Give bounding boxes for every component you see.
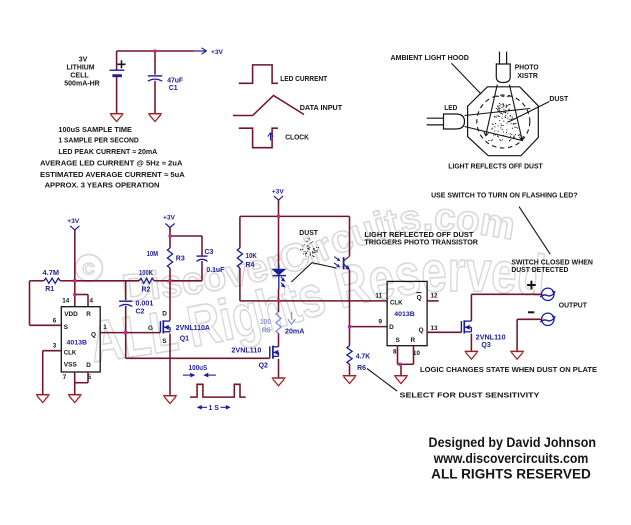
- label Q3 2VNL110: [476, 335, 506, 349]
- IC U1 4013B box: [61, 307, 100, 372]
- svg-text:3V: 3V: [79, 56, 88, 63]
- svg-text:R3: R3: [176, 255, 185, 262]
- pointer select sensitivity: [367, 369, 397, 392]
- svg-text:D: D: [162, 310, 167, 317]
- wire pin 1 Q to Q1 gate: [100, 332, 160, 334]
- +3V symbol above U1: [67, 218, 80, 234]
- svg-text:D: D: [86, 362, 91, 369]
- LED package: [444, 114, 465, 129]
- svg-text:VDD: VDD: [64, 311, 78, 318]
- note SWITCH CLOSED WHEN DUST DETECTED: [511, 257, 593, 274]
- wire R5 to Q2 drain: [278, 333, 280, 347]
- wire pin 13 Q to Q3 gate: [427, 331, 461, 333]
- svg-text:7: 7: [63, 374, 67, 381]
- wire pins 7,5 VSS/D to ground: [75, 372, 88, 395]
- wire Q2 source to ground: [278, 359, 280, 378]
- U1 pin numbers: [53, 298, 108, 382]
- svg-text:0.001: 0.001: [136, 301, 154, 308]
- svg-text:LOGIC CHANGES STATE WHEN DUST: LOGIC CHANGES STATE WHEN DUST ON PLATE: [420, 365, 597, 374]
- svg-text:Q: Q: [419, 327, 424, 334]
- ground U1 CLK: [36, 395, 50, 403]
- output terminal +: [540, 288, 556, 300]
- resistor R2 100K: [75, 278, 170, 283]
- U2 pin numbers: [375, 293, 438, 358]
- svg-text:Q3: Q3: [481, 342, 490, 349]
- pointer ambient light hood: [452, 63, 482, 94]
- light cone lines: [484, 85, 524, 140]
- junction dots overlay: [73, 50, 401, 366]
- label 1S with arrows: [197, 405, 231, 412]
- ground R6: [343, 376, 357, 384]
- svg-text:LED PEAK CURRENT ≈ 20mA: LED PEAK CURRENT ≈ 20mA: [58, 147, 157, 156]
- svg-text:VSS: VSS: [64, 362, 78, 369]
- svg-text:3: 3: [53, 343, 57, 350]
- wire pin 3 CLK to ground: [43, 351, 62, 395]
- wire top rail battery to +3V arrow: [117, 50, 194, 52]
- note sample time text block: [40, 125, 186, 190]
- label R1 4.7M: [43, 270, 60, 293]
- +3V symbol above LED box: [272, 189, 285, 205]
- svg-text:DATA INPUT: DATA INPUT: [300, 103, 343, 112]
- svg-text:4013B: 4013B: [67, 340, 88, 347]
- wire phototransistor collector: [344, 216, 350, 260]
- 20mA arrow: [285, 312, 304, 336]
- svg-text:C3: C3: [205, 249, 214, 256]
- wire Q3 source to ground: [470, 334, 472, 352]
- capacitor C3 0.1uF: [170, 256, 208, 281]
- svg-text:AVERAGE LED CURRENT @ 5Hz ≈ 2u: AVERAGE LED CURRENT @ 5Hz ≈ 2uA: [40, 159, 183, 168]
- transistor Q1 2VNL110A: [160, 320, 170, 333]
- svg-text:100K: 100K: [139, 270, 153, 277]
- svg-text:CLOCK: CLOCK: [285, 133, 309, 142]
- label C2 0.001: [136, 301, 154, 316]
- svg-text:DUST DETECTED: DUST DETECTED: [511, 265, 568, 274]
- junction top rail: [277, 215, 280, 218]
- svg-text:DUST: DUST: [299, 228, 318, 237]
- svg-text:1: 1: [103, 324, 107, 331]
- wire +3V down to top rail: [278, 200, 280, 216]
- svg-text:SELECT FOR DUST SENSITIVITY: SELECT FOR DUST SENSITIVITY: [400, 390, 540, 399]
- dashed circle hood: [477, 95, 530, 148]
- label R3 10M: [147, 251, 185, 263]
- svg-text:ALL RIGHTS RESERVED: ALL RIGHTS RESERVED: [431, 467, 591, 482]
- pointer dust to LED: [291, 263, 336, 282]
- svg-text:S: S: [396, 337, 401, 344]
- dust speckles hood: [488, 103, 521, 141]
- output terminal -: [540, 313, 556, 325]
- svg-text:Q1: Q1: [180, 335, 189, 342]
- svg-text:Q: Q: [91, 332, 96, 339]
- svg-text:14: 14: [62, 298, 70, 305]
- svg-text:XISTR: XISTR: [517, 71, 538, 80]
- svg-text:R2: R2: [142, 287, 151, 294]
- pointer use switch: [519, 207, 550, 255]
- svg-text:Q: Q: [417, 294, 422, 301]
- svg-text:12: 12: [430, 293, 438, 300]
- svg-text:500mA-HR: 500mA-HR: [64, 81, 100, 88]
- svg-text:0.1uF: 0.1uF: [206, 267, 225, 274]
- svg-text:11: 11: [375, 293, 382, 300]
- svg-text:2VNL110A: 2VNL110A: [176, 325, 210, 332]
- ground output: [510, 351, 524, 359]
- transistor Q3 2VNL110: [461, 320, 471, 333]
- svg-text:CLK: CLK: [390, 299, 403, 306]
- label PHOTO XISTR: [515, 63, 539, 81]
- ground Q3: [465, 351, 479, 359]
- capacitor C1 .47uF: [148, 51, 162, 114]
- wire LED cathode to rail: [278, 289, 280, 301]
- svg-text:10K: 10K: [246, 253, 257, 260]
- label DUST (hood) + pointer: [508, 94, 568, 122]
- svg-text:D: D: [389, 324, 394, 331]
- svg-text:+3V: +3V: [211, 49, 224, 56]
- svg-text:CLK: CLK: [64, 349, 77, 356]
- svg-text:2VNL110: 2VNL110: [231, 347, 261, 354]
- wire LED anode: [278, 216, 280, 268]
- octagon hood: [468, 87, 539, 156]
- label R2 100K: [139, 270, 153, 294]
- waveform clock: [239, 128, 278, 148]
- wire C2 bottom to Q2 gate: [126, 333, 270, 359]
- LED package leads: [427, 118, 444, 125]
- svg-text:LIGHT REFLECTS OFF DUST: LIGHT REFLECTS OFF DUST: [448, 161, 543, 170]
- svg-text:4013B: 4013B: [394, 311, 415, 318]
- wire node to Q1 drain: [169, 281, 171, 321]
- junction S/R ground: [399, 363, 402, 366]
- svg-text:R5: R5: [262, 328, 271, 335]
- svg-text:6: 6: [53, 318, 57, 325]
- photo transistor package: [496, 64, 510, 83]
- ground C1: [148, 114, 162, 122]
- svg-text:100: 100: [260, 319, 271, 326]
- resistor R4 10K: [237, 216, 242, 301]
- svg-text:C1: C1: [169, 85, 178, 92]
- ground U2 S/R: [394, 376, 408, 384]
- clock edge arrow: [268, 133, 273, 141]
- +3V symbol above R3: [163, 215, 176, 233]
- svg-text:S: S: [162, 338, 167, 345]
- ground Q1: [163, 396, 177, 404]
- credits designed by: [429, 435, 597, 481]
- wire Q3 drain to + terminal: [471, 294, 541, 321]
- wire R3 bottom: [169, 268, 171, 281]
- svg-text:LED: LED: [444, 103, 457, 112]
- wire C3 branch top: [170, 236, 202, 256]
- wire pin 12 stub: [427, 300, 439, 302]
- svg-text:47uF: 47uF: [167, 78, 183, 85]
- svg-text:9: 9: [379, 319, 383, 326]
- IC U2 4013B box: [387, 281, 427, 345]
- svg-text:2VNL110: 2VNL110: [476, 335, 506, 342]
- svg-text:Q2: Q2: [259, 363, 268, 370]
- note LIGHT REFLECTED OFF DUST TRIGGERS PHOTO TRANSISTOR: [364, 230, 478, 247]
- svg-text:APPROX. 3 YEARS OPERATION: APPROX. 3 YEARS OPERATION: [45, 181, 160, 190]
- wire to pin 9 D: [350, 326, 388, 328]
- svg-text:10M: 10M: [147, 251, 159, 258]
- cone dashed top: [496, 95, 511, 97]
- wire phototransistor emitter down: [349, 270, 351, 346]
- resistor R3 10M: [167, 248, 172, 268]
- svg-text:1 SAMPLE PER SECOND: 1 SAMPLE PER SECOND: [58, 136, 138, 145]
- svg-text:C: C: [83, 260, 95, 279]
- svg-text:8: 8: [393, 349, 397, 356]
- +3V arrow top: [194, 48, 224, 56]
- ground Q2: [272, 378, 286, 386]
- svg-text:4.7M: 4.7M: [43, 270, 60, 277]
- svg-text:AMBIENT LIGHT HOOD: AMBIENT LIGHT HOOD: [391, 53, 469, 62]
- svg-text:4.7K: 4.7K: [356, 353, 371, 360]
- junction R5 top: [277, 299, 280, 302]
- svg-text:S: S: [64, 324, 69, 331]
- dust speckles circuit: [300, 238, 319, 257]
- wire pins 8,10 S/R to ground: [398, 346, 414, 376]
- junction C1 top: [154, 50, 157, 53]
- label C1: [167, 78, 183, 93]
- svg-text:www.discovercircuits.com: www.discovercircuits.com: [433, 451, 588, 466]
- wire +3V to VDD pin 14: [74, 230, 76, 307]
- svg-text:R6: R6: [357, 365, 366, 372]
- phototransistor Q4 (blue): [334, 257, 350, 271]
- label C3 0.1uF: [205, 249, 225, 274]
- junction node R2/R3/C3/Q1drain: [169, 279, 172, 282]
- minus sign: [528, 311, 534, 313]
- top rail of LED box: [240, 215, 350, 217]
- wire - terminal to ground: [517, 319, 542, 351]
- label R5 100: [260, 319, 271, 335]
- svg-text:C2: C2: [136, 309, 145, 316]
- arrows 100uS: [183, 373, 216, 378]
- junction pin4 branch: [73, 293, 76, 296]
- svg-text:R: R: [86, 311, 91, 318]
- label Q1 2VNL110A: [176, 325, 210, 342]
- svg-text:4: 4: [89, 298, 93, 305]
- svg-text:CELL: CELL: [70, 72, 89, 79]
- svg-text:R: R: [411, 337, 416, 344]
- svg-text:R1: R1: [45, 286, 54, 293]
- waveform data input: [233, 96, 304, 116]
- U2 inside labels: [389, 293, 424, 344]
- photo transistor leads: [500, 52, 507, 64]
- LED D1 (blue): [272, 265, 286, 290]
- resistor R1 4.7M: [30, 278, 75, 283]
- svg-text:20mA: 20mA: [285, 328, 304, 335]
- svg-text:Designed by David Johnson: Designed by David Johnson: [429, 435, 597, 450]
- label Q2 2VNL110: [231, 347, 268, 369]
- svg-text:LED CURRENT: LED CURRENT: [280, 74, 327, 83]
- transistor Q2 2VNL110: [270, 346, 279, 359]
- svg-text:DUST: DUST: [549, 94, 568, 103]
- svg-text:13: 13: [430, 325, 438, 332]
- svg-text:ESTIMATED AVERAGE CURRENT ≈ 5u: ESTIMATED AVERAGE CURRENT ≈ 5uA: [40, 170, 186, 179]
- resistor R6 4.7K: [347, 346, 352, 365]
- label battery 3V LITHIUM CELL 500mA-HR: [64, 56, 100, 87]
- battery B1 3V lithium: [110, 51, 126, 114]
- resistor R5 100: [276, 301, 281, 333]
- svg-text:TRIGGERS PHOTO TRANSISTOR: TRIGGERS PHOTO TRANSISTOR: [364, 238, 478, 247]
- junction R3/C3 top: [169, 235, 172, 238]
- junction emitter/D input: [348, 325, 351, 328]
- wire +3V to R3/C3 node: [169, 228, 171, 249]
- U1 inside labels: [64, 311, 96, 369]
- labels Q1 D G S: [148, 310, 167, 345]
- svg-text:OUTPUT: OUTPUT: [559, 300, 588, 309]
- svg-text:1 S: 1 S: [208, 405, 219, 412]
- ground battery: [110, 114, 124, 122]
- wire branch to pin 4 R: [75, 295, 88, 307]
- svg-text:+3V: +3V: [272, 189, 285, 196]
- wire R1 left to pin 6 S: [30, 281, 62, 326]
- svg-text:G: G: [148, 325, 153, 332]
- svg-text:100uS SAMPLE TIME: 100uS SAMPLE TIME: [58, 125, 132, 134]
- svg-text:R4: R4: [246, 262, 255, 269]
- plus sign: [527, 281, 536, 290]
- svg-text:+3V: +3V: [163, 215, 176, 222]
- watermark discovercircuits: [76, 196, 549, 375]
- label R6 4.7K: [356, 353, 371, 372]
- junction +3V / R1R2 rail: [73, 279, 76, 282]
- svg-text:100uS: 100uS: [189, 365, 208, 372]
- capacitor C2 0.001: [119, 281, 132, 333]
- LED beams: [465, 109, 531, 141]
- rail LED-box bottom / CLK line: [240, 300, 387, 302]
- waveform LED current: [239, 65, 278, 83]
- ground U1 VSS: [68, 395, 82, 403]
- label R4 10K: [246, 253, 257, 269]
- pulse waveform: [190, 384, 246, 397]
- svg-text:USE SWITCH TO TURN ON FLASHING: USE SWITCH TO TURN ON FLASHING LED?: [431, 191, 578, 200]
- wire R6 to ground: [349, 364, 351, 375]
- svg-text:+3V: +3V: [67, 218, 80, 225]
- junction C2 line on Q wire: [124, 331, 127, 334]
- wire Q1 source to ground: [169, 334, 171, 396]
- svg-text:LITHIUM: LITHIUM: [67, 65, 95, 72]
